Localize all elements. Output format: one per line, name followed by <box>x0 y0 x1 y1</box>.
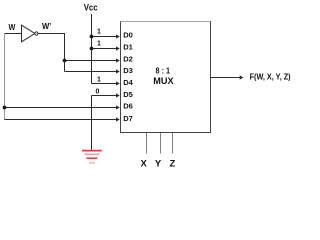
svg-text:D1: D1 <box>123 43 133 52</box>
svg-text:D7: D7 <box>123 114 133 123</box>
svg-text:1: 1 <box>97 41 101 48</box>
svg-text:D2: D2 <box>123 54 133 63</box>
svg-text:W’: W’ <box>42 22 51 31</box>
svg-text:8 : 1: 8 : 1 <box>156 65 171 75</box>
svg-text:Y: Y <box>155 158 162 169</box>
svg-text:1: 1 <box>97 29 101 36</box>
svg-text:X: X <box>141 158 148 169</box>
svg-text:Z: Z <box>169 158 175 169</box>
svg-text:W: W <box>9 22 17 32</box>
svg-text:F(W, X, Y, Z): F(W, X, Y, Z) <box>250 71 291 81</box>
svg-text:D6: D6 <box>123 101 133 110</box>
svg-text:MUX: MUX <box>153 76 173 86</box>
svg-text:1: 1 <box>97 76 101 83</box>
svg-text:D0: D0 <box>123 31 133 40</box>
svg-text:D3: D3 <box>123 66 133 75</box>
svg-text:D5: D5 <box>123 90 133 99</box>
svg-text:0: 0 <box>96 88 100 95</box>
svg-text:Vcc: Vcc <box>84 3 98 13</box>
svg-text:D4: D4 <box>123 78 133 87</box>
